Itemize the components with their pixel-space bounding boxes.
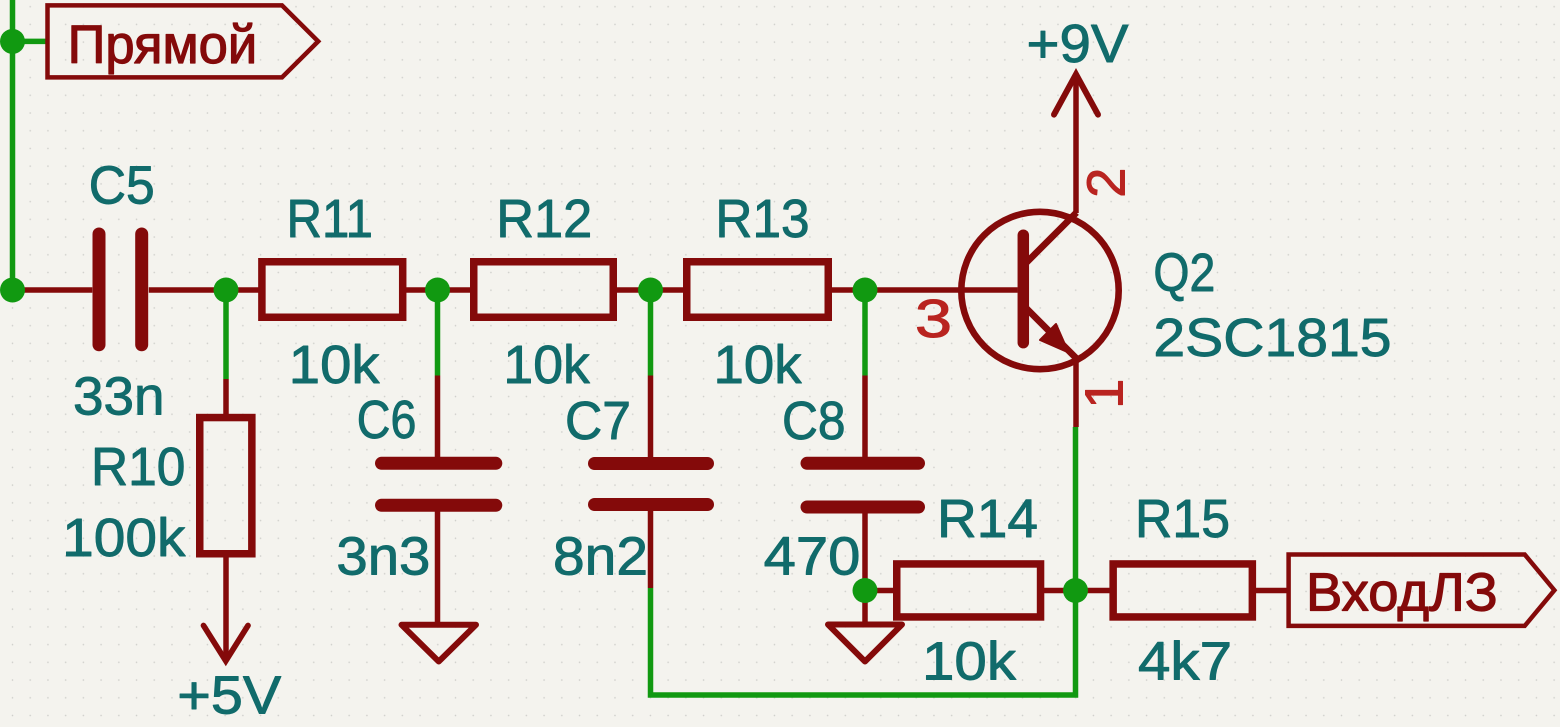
svg-text:C7: C7 xyxy=(565,391,631,451)
ground (below C6) xyxy=(402,625,477,662)
svg-text:10k: 10k xyxy=(922,632,1017,692)
capacitor C7 xyxy=(595,376,708,589)
wire C7 bottom to emitter (L-shape) xyxy=(651,427,1076,695)
wire down from node A xyxy=(223,290,229,379)
svg-text:8n2: 8n2 xyxy=(553,527,648,587)
svg-text:Q2: Q2 xyxy=(1153,243,1215,303)
capacitor C5 xyxy=(14,234,220,345)
svg-text:Прямой: Прямой xyxy=(68,15,258,75)
wire down from node D xyxy=(862,290,868,376)
svg-text:R15: R15 xyxy=(1135,489,1230,549)
transistor Q2 xyxy=(865,74,1119,427)
svg-text:100k: 100k xyxy=(62,508,186,568)
resistor R14 xyxy=(865,564,1076,617)
svg-text:470: 470 xyxy=(764,527,861,587)
junction node B (R11/R12) xyxy=(425,278,450,303)
resistor R12 xyxy=(438,262,651,318)
svg-text:R11: R11 xyxy=(287,189,374,249)
svg-text:R14: R14 xyxy=(937,489,1038,549)
svg-text:10k: 10k xyxy=(714,335,803,395)
capacitor C8 xyxy=(807,376,919,591)
svg-text:R13: R13 xyxy=(715,189,809,249)
svg-text:+9V: +9V xyxy=(1027,14,1129,74)
svg-text:C8: C8 xyxy=(782,391,846,451)
hierarchical label Прямой xyxy=(48,5,319,77)
power symbol +9V (arrow up) xyxy=(1027,14,1129,115)
svg-text:2: 2 xyxy=(1077,168,1137,198)
junction left at main wire xyxy=(0,278,25,303)
svg-text:+5V: +5V xyxy=(177,666,281,726)
svg-text:1: 1 xyxy=(1074,379,1134,409)
junction top-left xyxy=(0,29,25,54)
capacitor C6 xyxy=(382,376,496,626)
svg-text:4k7: 4k7 xyxy=(1138,632,1232,692)
svg-text:10k: 10k xyxy=(503,335,590,395)
power symbol +5V (arrow down) xyxy=(177,626,281,726)
wire down from node C xyxy=(648,290,654,376)
svg-text:3n3: 3n3 xyxy=(336,526,430,586)
ground (below node E) xyxy=(828,591,902,662)
wire down from node B xyxy=(435,290,441,376)
svg-text:C5: C5 xyxy=(89,156,155,216)
wire stub to label Прямой xyxy=(13,39,48,45)
svg-text:ВходЛЗ: ВходЛЗ xyxy=(1306,563,1498,623)
svg-text:3: 3 xyxy=(915,289,952,349)
svg-text:2SC1815: 2SC1815 xyxy=(1153,308,1391,368)
junction node D (R13/base/C8) xyxy=(853,278,878,303)
svg-text:C6: C6 xyxy=(357,390,417,450)
resistor R13 xyxy=(651,262,866,318)
resistor R10 (vertical) xyxy=(200,379,252,661)
junction node C (R12/R13) xyxy=(638,278,663,303)
svg-text:10k: 10k xyxy=(289,335,381,395)
junction node F (R14/R15/emitter) xyxy=(1063,578,1088,603)
hierarchical label ВходЛЗ xyxy=(1289,555,1555,626)
junction node A (after C5) xyxy=(214,278,239,303)
junction node E (C8/R14/gnd) xyxy=(853,578,878,603)
svg-text:33n: 33n xyxy=(73,367,165,427)
resistor R15 xyxy=(1076,564,1289,617)
wire vertical left edge xyxy=(10,0,16,290)
svg-text:R12: R12 xyxy=(496,189,592,249)
svg-text:R10: R10 xyxy=(91,437,185,497)
resistor R11 xyxy=(226,262,438,318)
